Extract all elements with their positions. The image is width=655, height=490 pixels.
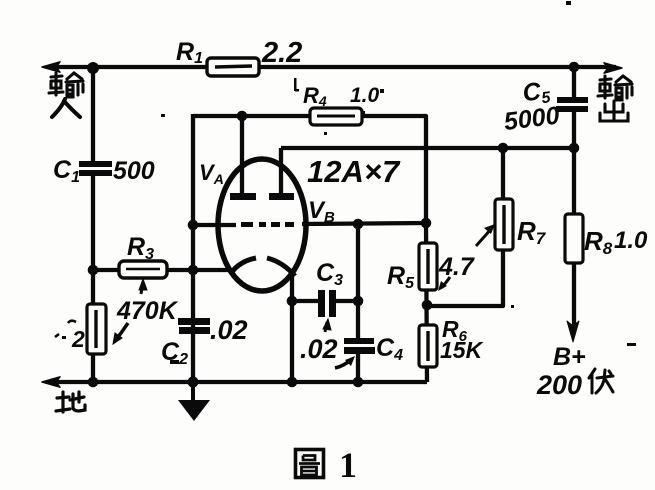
glyph 輸入 (input): [49, 73, 83, 117]
wire R7 leg: [427, 148, 503, 306]
node R5/R6/R7 junction: [422, 300, 433, 311]
capacitor C2: [178, 318, 210, 334]
wire R8 to B+: [572, 263, 576, 330]
svg-text:200: 200: [536, 370, 582, 400]
leader arrow .02 to C3: [323, 319, 331, 332]
wire C5 branch: [572, 67, 576, 97]
capacitor C1: [79, 161, 112, 176]
resistor R7: [495, 199, 513, 250]
wire R5/R6 vertical: [426, 223, 427, 382]
glyph 輸出 (output): [598, 76, 632, 121]
plate VA: [230, 193, 256, 200]
svg-text:500: 500: [113, 157, 155, 185]
node R5 top corner junction: [421, 218, 432, 229]
leader swoosh 4.7 to R7: [476, 228, 492, 246]
wire top rail (input to output): [48, 65, 616, 69]
node VA grid junction: [188, 220, 199, 231]
node C5/R8 junction: [569, 143, 580, 154]
grid wire right (VB grid): [302, 223, 426, 224]
svg-text:1: 1: [339, 445, 357, 485]
svg-text:2.2: 2.2: [261, 37, 302, 69]
node input junction: [87, 62, 99, 74]
cathode VB arc: [267, 258, 295, 276]
wire C4 to ground rail: [356, 354, 360, 382]
node output junction: [569, 62, 580, 73]
wire VB plate lead: [279, 148, 283, 194]
wire ground rail: [48, 380, 427, 384]
cathode VA arc: [231, 258, 256, 273]
capacitor C5: [556, 97, 588, 112]
svg-text:15K: 15K: [440, 337, 484, 363]
output arrow (right, 輸出 terminal): [604, 63, 622, 73]
node R7 top junction: [498, 143, 509, 154]
svg-text:.02: .02: [210, 315, 248, 345]
wire R8 leg: [572, 148, 576, 214]
leader arrow 470K to R3: [113, 279, 147, 344]
svg-text:4.7: 4.7: [438, 253, 475, 281]
resistor R5: [419, 243, 437, 290]
input arrow (left, 輸入 terminal): [42, 62, 60, 72]
wire VB plate rail: [281, 146, 574, 150]
svg-text:2: 2: [71, 326, 85, 352]
wire C1 to ground rail: [91, 176, 95, 382]
node R3 right junction: [188, 265, 199, 276]
wire C1 branch vertical: [91, 67, 95, 161]
svg-text:12A×7: 12A×7: [307, 154, 401, 189]
wire cathode VB vertical: [290, 273, 294, 382]
svg-text:1.0: 1.0: [350, 84, 380, 107]
svg-text:470K: 470K: [116, 297, 179, 325]
grid wire left (VA grid): [193, 223, 236, 227]
capacitor C4: [344, 338, 375, 354]
resistor R1: [207, 58, 259, 76]
B+ arrow: [567, 321, 579, 342]
leader swoosh 4.7 to R5: [441, 277, 450, 288]
ground symbol: [178, 382, 210, 421]
node VA plate junction: [237, 111, 248, 122]
resistor R2: [87, 304, 106, 354]
wire left loop vertical (grid of VA): [191, 114, 195, 382]
resistor R8: [565, 214, 583, 263]
svg-text:.02: .02: [300, 334, 338, 364]
wire R3 row (grid VA to cathode): [93, 268, 229, 272]
node R3 left junction: [88, 265, 99, 276]
node cathode/C3 junction: [287, 296, 298, 307]
resistor R3: [119, 261, 167, 278]
svg-text:B+: B+: [553, 343, 586, 371]
resistor R6: [419, 325, 437, 367]
ground rail arrow (left, 地 terminal): [42, 377, 60, 387]
glyph 地 (ground): [56, 392, 85, 412]
leader swoosh below C4: [335, 359, 352, 368]
plate VB: [269, 193, 294, 200]
tube 12AX7 envelope: [218, 159, 306, 291]
wire VA plate lead: [240, 116, 244, 194]
wire C5 to rail: [572, 112, 576, 148]
capacitor C3: [318, 290, 336, 317]
svg-text:1.0: 1.0: [614, 227, 648, 254]
node branch junction on grid wire: [353, 219, 364, 230]
resistor R4: [310, 108, 362, 125]
wire R4 to VB grid: [362, 116, 426, 223]
noise specks: [161, 1, 636, 364]
grid dashes inside tube: [241, 222, 294, 227]
wire VA plate loop top: [193, 114, 310, 118]
glyph 伏 (volts): [589, 369, 613, 393]
glyph 圖 (figure) caption: [296, 450, 324, 478]
node C3/C4 junction: [353, 296, 364, 307]
node ground junctions: [88, 377, 99, 388]
wire C3 row: [292, 299, 318, 303]
wire branch vertical (C4 leg): [356, 224, 360, 338]
